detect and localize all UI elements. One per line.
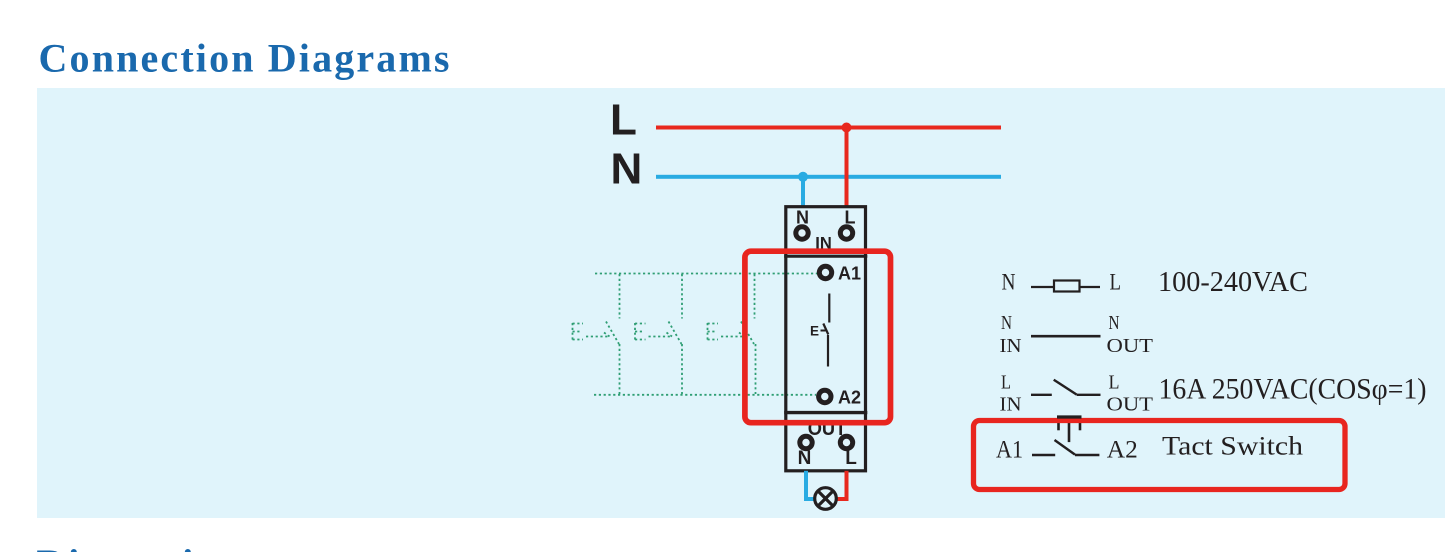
tact switch SW1: left lead <box>1032 454 1055 456</box>
contact pole P2 (dashed) <box>635 274 682 394</box>
terminal N IN <box>796 227 808 239</box>
tact switch SW1: button cap <box>1057 415 1082 418</box>
switch S1: right lead <box>1077 394 1101 396</box>
terminal L OUT <box>840 436 852 448</box>
svg-text:N: N <box>798 448 812 469</box>
svg-text:A2: A2 <box>1107 436 1138 463</box>
terminal N OUT <box>800 436 812 448</box>
svg-text:A1: A1 <box>838 264 861 284</box>
legend row 2: N feed-through <box>1000 312 1154 357</box>
divider below IN section <box>784 255 867 258</box>
terminal L IN <box>840 227 852 239</box>
svg-text:N: N <box>1109 312 1120 334</box>
actuator dash <box>821 330 826 332</box>
lamp LP1 <box>815 488 837 510</box>
light blue panel <box>37 88 1445 518</box>
relay module U1 outline <box>786 207 866 471</box>
terminal A1 <box>819 266 831 278</box>
svg-text:16A 250VAC(COSφ=1): 16A 250VAC(COSφ=1) <box>1159 373 1427 406</box>
svg-text:N: N <box>1001 312 1012 334</box>
ghost watermark: dashed outline of adjacent poles <box>573 274 819 395</box>
svg-text:A1: A1 <box>996 436 1023 463</box>
wire: legend row1 left lead <box>1031 286 1054 288</box>
wire: N OUT to lamp (blue) <box>804 497 814 501</box>
switch S1: blade <box>1054 380 1077 395</box>
svg-text:OUT: OUT <box>1107 335 1154 357</box>
wire: L OUT down (red) <box>845 471 849 501</box>
tact switch SW1: right lead <box>1075 454 1099 456</box>
legend row 4: tact switch input <box>996 417 1303 463</box>
tact switch SW1: button side legs <box>1057 417 1060 430</box>
wire: L bus (red) <box>656 126 1001 130</box>
contact pole P1 (dashed) <box>573 274 620 394</box>
terminal A2 <box>819 390 831 402</box>
svg-text:N: N <box>611 145 643 194</box>
svg-text:L: L <box>610 95 637 144</box>
svg-text:IN: IN <box>1000 335 1022 357</box>
svg-text:L: L <box>1110 269 1122 295</box>
svg-text:Dimensions: Dimensions <box>37 541 263 552</box>
wire: N IN to N OUT <box>1031 335 1101 338</box>
svg-text:A2: A2 <box>838 388 861 408</box>
wire: N drop to N IN terminal (blue) <box>801 177 805 208</box>
internal contact K1: blade <box>823 324 828 335</box>
svg-text:OUT: OUT <box>1107 394 1154 416</box>
tact switch SW1: plunger <box>1068 419 1071 442</box>
red highlight box around A1/A2 section <box>745 251 891 423</box>
svg-text:N: N <box>1002 269 1016 295</box>
wire: legend row1 right lead <box>1080 286 1101 288</box>
wire: L drop to L IN terminal (red) <box>845 128 849 209</box>
svg-text:E: E <box>810 324 819 339</box>
svg-text:L: L <box>1109 372 1120 394</box>
wire: N bus (blue) <box>656 175 1001 179</box>
tact switch SW1: blade <box>1055 440 1076 455</box>
svg-text:L: L <box>1001 372 1011 394</box>
junction on L bus <box>842 123 852 133</box>
svg-text:100-240VAC: 100-240VAC <box>1158 267 1308 298</box>
svg-text:Connection Diagrams: Connection Diagrams <box>39 35 450 80</box>
switch S1: left lead <box>1031 394 1052 396</box>
wire: N OUT down (blue) <box>804 471 808 501</box>
red highlight box around tact switch row <box>974 421 1346 490</box>
legend row 1: power input <box>1002 267 1309 298</box>
wire: watermark top dashed bus <box>595 273 818 275</box>
svg-text:Tact Switch: Tact Switch <box>1162 432 1303 461</box>
wire: watermark bottom dashed bus <box>594 394 816 396</box>
internal contact K1: upper lead <box>828 294 830 323</box>
internal contact K1: lower lead <box>827 335 829 367</box>
load box (input supply) <box>1054 281 1080 292</box>
svg-text:IN: IN <box>1000 394 1022 416</box>
junction on N bus <box>798 172 808 182</box>
svg-text:L: L <box>845 448 857 469</box>
contact pole P3 (dashed) <box>708 274 756 394</box>
legend row 3: switched L contact <box>1000 372 1427 416</box>
divider above OUT section <box>784 411 867 414</box>
wire: lamp to L OUT (red) <box>838 497 849 501</box>
